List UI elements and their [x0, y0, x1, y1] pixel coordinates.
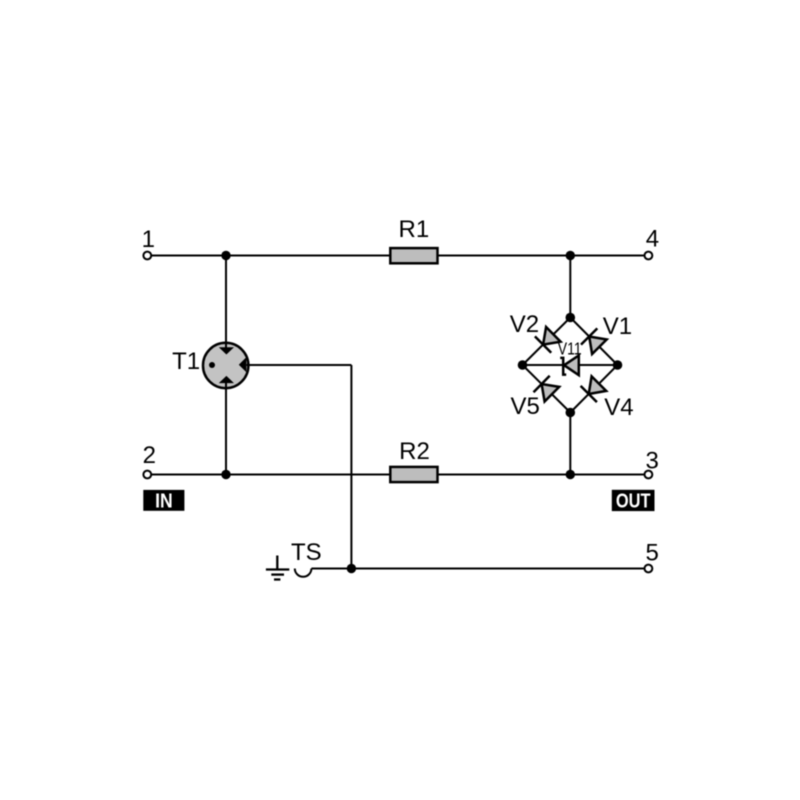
svg-text:V5: V5 — [511, 393, 540, 420]
svg-text:V11: V11 — [558, 340, 582, 359]
svg-text:4: 4 — [646, 226, 659, 253]
svg-text:V4: V4 — [604, 394, 633, 421]
svg-text:TS: TS — [291, 539, 322, 566]
svg-text:3: 3 — [646, 447, 659, 474]
svg-text:R2: R2 — [399, 438, 430, 465]
svg-text:IN: IN — [155, 489, 173, 511]
svg-text:V1: V1 — [603, 313, 632, 340]
svg-text:1: 1 — [142, 226, 155, 253]
svg-text:V2: V2 — [510, 311, 539, 338]
svg-text:5: 5 — [646, 540, 659, 567]
svg-text:R1: R1 — [399, 216, 430, 243]
svg-text:2: 2 — [143, 442, 156, 469]
svg-text:OUT: OUT — [616, 489, 651, 512]
svg-text:T1: T1 — [172, 348, 200, 375]
